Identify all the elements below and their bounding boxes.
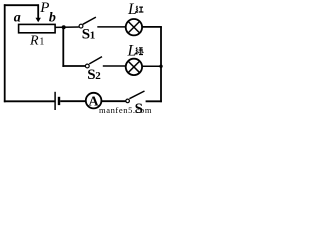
svg-text:1: 1	[90, 30, 96, 42]
svg-text:a: a	[14, 11, 21, 26]
wire: lamp L2 to right wire	[142, 65, 161, 67]
ammeter A: circle	[86, 93, 102, 109]
lamp L2: cross stroke 1	[128, 61, 140, 73]
wire: rheostat to S1	[55, 26, 79, 28]
wire: right vertical side	[160, 27, 162, 102]
wire: S1 to lamp L1	[97, 26, 126, 28]
lamp L2: cross stroke 2	[128, 61, 140, 73]
svg-text:R: R	[29, 33, 39, 48]
svg-text:2: 2	[95, 70, 101, 82]
svg-text:P: P	[39, 0, 49, 16]
wire: lamp L1 to top right corner	[142, 26, 162, 28]
rheostat R1: slider arrowhead	[36, 18, 41, 23]
rheostat R1: slider arrow shaft	[37, 4, 39, 18]
svg-text:L: L	[127, 43, 137, 60]
lamp L1: label red character	[136, 6, 143, 12]
lamp L1: cross stroke 2	[128, 21, 140, 33]
battery BT: long positive plate	[54, 92, 56, 110]
wire: branch corner to S2	[62, 65, 85, 67]
wire: S2 to lamp L2	[103, 65, 127, 67]
battery BT: short thick negative plate	[58, 97, 60, 105]
svg-text:1: 1	[39, 37, 44, 48]
wire: top horizontal from left corner to slider	[4, 4, 39, 6]
node: junction of green lamp branch with right wire	[159, 65, 162, 68]
switch S1: lever	[83, 17, 96, 24]
svg-text:b: b	[49, 11, 56, 26]
wire: bottom left to battery	[4, 100, 55, 102]
switch S2: terminal circle	[85, 64, 89, 68]
switch S1: terminal circle	[79, 24, 83, 28]
switch S: lever	[129, 91, 144, 99]
wire: switch S to bottom right corner	[146, 100, 162, 102]
wire: left vertical side	[4, 4, 6, 102]
svg-text:manfen5.com: manfen5.com	[99, 105, 152, 115]
wire: vertical branch from junction to S2 row	[62, 27, 64, 67]
svg-text:L: L	[127, 1, 137, 18]
lamp L1 (L red): circle	[126, 19, 142, 35]
wire: battery to ammeter	[60, 100, 86, 102]
switch S2: lever	[89, 57, 102, 64]
svg-text:A: A	[89, 94, 100, 109]
node: junction dot after rheostat	[62, 25, 66, 29]
rheostat R1: body rectangle	[19, 24, 56, 32]
lamp L2: label green character	[136, 48, 143, 55]
wire: ammeter to switch S	[101, 100, 125, 102]
switch S: terminal circle	[126, 99, 130, 103]
lamp L2 (L green): circle	[126, 59, 142, 75]
lamp L1: cross stroke 1	[128, 21, 140, 33]
